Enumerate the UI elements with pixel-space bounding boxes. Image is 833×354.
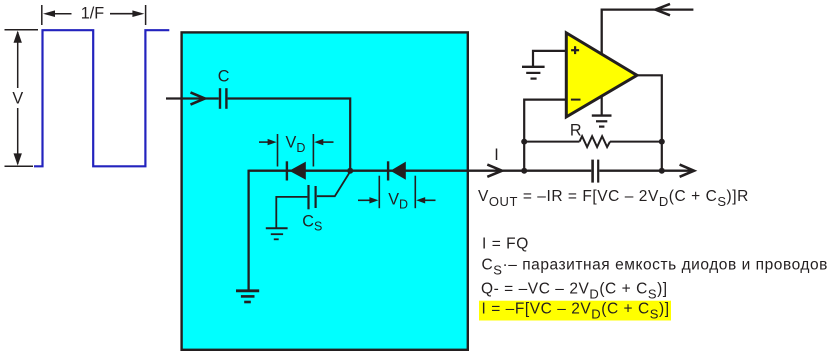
- svg-text:I = FQ: I = FQ: [482, 235, 529, 252]
- V dimension arrow line (upper part): [17, 32, 19, 88]
- I arrow: [487, 165, 502, 177]
- svg-text:C: C: [218, 68, 230, 86]
- 1/F right arrow: [110, 13, 134, 15]
- dimension tick bottom (V low level): [5, 165, 34, 167]
- svg-text:V: V: [12, 89, 23, 107]
- slanted wire node to CS: [317, 172, 350, 197]
- node dot right on output line: [659, 168, 665, 174]
- V dimension arrowhead down: [14, 153, 22, 165]
- wire C to node (with corner): [228, 99, 351, 171]
- input wire: [166, 97, 219, 99]
- V dimension arrowhead up: [14, 31, 22, 43]
- capacitor CS plate right: [315, 186, 317, 208]
- VD upper arrow right: [322, 141, 334, 143]
- op-amp U1 triangle: [566, 33, 637, 117]
- input arrow: [191, 92, 205, 104]
- ground below op-amp: [592, 114, 612, 116]
- capacitor C plate left: [219, 88, 221, 109]
- plus sign: [571, 49, 579, 51]
- svg-text:1/F: 1/F: [81, 5, 105, 23]
- feedback R left wire: [524, 141, 579, 143]
- VD lower arrow left: [358, 199, 370, 201]
- op-amp output wire: [637, 75, 662, 170]
- node dot left on output line: [521, 168, 527, 174]
- ground at + input: [522, 66, 545, 68]
- op-amp bottom stub: [601, 96, 603, 115]
- capacitor CS plate left: [307, 185, 309, 209]
- small ground (CS): [266, 227, 288, 229]
- VD upper arrow left: [259, 141, 269, 143]
- 1/F tick left: [41, 5, 43, 25]
- diode D1 triangle: [289, 162, 306, 180]
- main horizontal wire in box: [249, 170, 405, 172]
- svg-text:R: R: [570, 122, 582, 140]
- dimension tick top (V high level): [5, 29, 39, 31]
- feedback capacitor plate right: [597, 160, 599, 183]
- main output wire after cap: [599, 170, 693, 172]
- inverting input wire: [524, 100, 566, 171]
- diode D1 (left) cathode bar: [286, 161, 288, 180]
- VD upper tick right: [312, 134, 314, 167]
- VD dimension upper (D1): tick left: [277, 134, 279, 167]
- diode D2 triangle: [390, 162, 405, 180]
- top supply wire: [602, 10, 694, 55]
- capacitor C plate right: [225, 88, 227, 109]
- feedback capacitor plate left: [591, 160, 594, 183]
- svg-text:I: I: [494, 146, 499, 164]
- main output wire (box to summing node): [405, 170, 591, 172]
- resistor R zigzag: [580, 136, 611, 147]
- feedback R right wire: [610, 141, 662, 143]
- minus sign: [571, 99, 581, 101]
- square wave V(t): [34, 30, 169, 166]
- VD lower tick right: [414, 176, 416, 209]
- node dot right on R line: [659, 139, 665, 145]
- V dimension arrow line (lower part): [17, 108, 19, 164]
- non-inverting input wire: [533, 51, 566, 66]
- node dot left on R line: [521, 139, 527, 145]
- 1/F left arrow: [52, 13, 72, 15]
- cyan box (sampling network): [182, 32, 468, 349]
- wire CS to small ground: [276, 197, 307, 228]
- VD lower arrow right: [424, 199, 436, 201]
- highlight bar: [479, 301, 671, 321]
- node junction dot: [347, 168, 353, 174]
- wire to ground (left vertical): [247, 170, 249, 290]
- big ground: [236, 289, 259, 292]
- 1/F tick right: [145, 5, 147, 25]
- output arrowhead: [680, 165, 694, 177]
- VD dimension lower (D2): tick left: [378, 176, 380, 209]
- diode D2 (right) cathode bar: [387, 161, 389, 180]
- top wire arrow (pointing left): [656, 4, 671, 15]
